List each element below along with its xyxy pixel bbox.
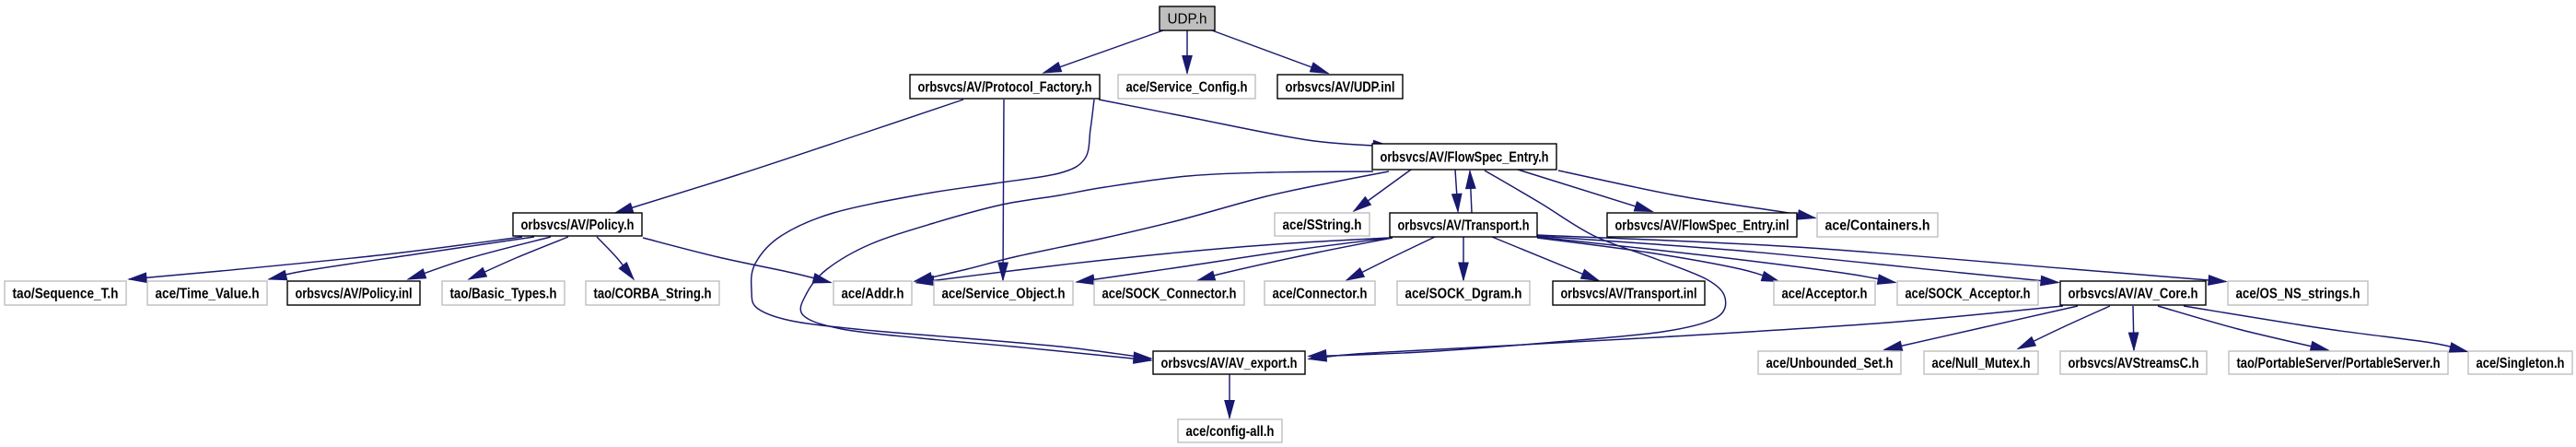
edge FlowSpec_Entry.h to AV_export.h (1309, 171, 1726, 359)
svg-text:ace/Null_Mutex.h: ace/Null_Mutex.h (1932, 356, 2031, 371)
svg-text:orbsvcs/AV/FlowSpec_Entry.h: orbsvcs/AV/FlowSpec_Entry.h (1381, 150, 1549, 166)
node ace/SOCK_Dgram.h (1397, 281, 1530, 305)
edge Transport.h to Service_Object.h (1077, 238, 1391, 284)
edge AV_Core.h to Unbounded_Set.h (1884, 306, 2078, 350)
svg-text:ace/config-all.h: ace/config-all.h (1186, 424, 1275, 440)
svg-text:ace/OS_NS_strings.h: ace/OS_NS_strings.h (2236, 287, 2360, 302)
svg-text:ace/Connector.h: ace/Connector.h (1273, 287, 1368, 302)
node orbsvcs/AV/AV_export.h (1153, 351, 1305, 374)
edge AV_Core.h to Singleton.h (2184, 306, 2467, 352)
svg-text:ace/Time_Value.h: ace/Time_Value.h (156, 287, 260, 302)
edge Transport.h to AV_Core.h (1537, 236, 2058, 286)
node ace/OS_NS_strings.h (2228, 281, 2368, 305)
svg-text:UDP.h: UDP.h (1168, 12, 1207, 28)
node ace/Singleton.h (2468, 351, 2572, 374)
edge UDP.h to UDP.inl (1212, 30, 1328, 74)
node tao/Basic_Types.h (442, 281, 565, 305)
node ace/config-all.h (1178, 419, 1282, 442)
edge Transport.h to OS_NS_strings.h (1537, 235, 2226, 285)
edge FlowSpec_Entry.h to FlowSpec_Entry.inl (1518, 170, 1652, 212)
edge Transport.h to Addr.h (916, 238, 1390, 286)
edge Policy.h to CORBA_String.h (597, 237, 634, 279)
node orbsvcs/AV/Transport.inl (1553, 281, 1705, 305)
node tao/PortableServer/PortableServer.h (2229, 351, 2448, 374)
edge Transport.h to Acceptor.h (1537, 238, 1779, 282)
node ace/Connector.h (1265, 281, 1375, 305)
svg-text:tao/Sequence_T.h: tao/Sequence_T.h (13, 287, 119, 302)
edge Transport.h to Transport.inl (1492, 237, 1599, 281)
edge Protocol_Factory.h to Service_Object.h (998, 100, 1008, 280)
edge AV_Core.h to Null_Mutex.h (2018, 306, 2110, 349)
node tao/CORBA_String.h (586, 281, 719, 305)
svg-text:ace/Unbounded_Set.h: ace/Unbounded_Set.h (1766, 356, 1894, 371)
edge Transport.h to SOCK_Connector.h (1197, 238, 1393, 281)
svg-text:orbsvcs/AV/Policy.h: orbsvcs/AV/Policy.h (521, 218, 635, 233)
node orbsvcs/AV/FlowSpec_Entry.inl (1607, 213, 1797, 237)
svg-text:orbsvcs/AV/Transport.inl: orbsvcs/AV/Transport.inl (1561, 287, 1697, 302)
node ace/Containers.h (1817, 213, 1938, 237)
edge FlowSpec_Entry.h to Containers.h (1558, 171, 1815, 219)
svg-text:orbsvcs/AV/Policy.inl: orbsvcs/AV/Policy.inl (296, 287, 413, 302)
node ace/Service_Object.h (934, 281, 1073, 305)
node ace/SOCK_Connector.h (1094, 281, 1244, 305)
svg-text:ace/Addr.h: ace/Addr.h (842, 287, 904, 302)
svg-text:orbsvcs/AV/UDP.inl: orbsvcs/AV/UDP.inl (1286, 80, 1395, 96)
node ace/Service_Config.h (1118, 75, 1255, 99)
edge AV_Core.h to PortableServer.h (2158, 306, 2328, 351)
node ace/Time_Value.h (147, 281, 267, 305)
node ace/Addr.h (833, 281, 912, 305)
edge FlowSpec_Entry.h to SString.h (1354, 170, 1411, 211)
edge UDP.h to Protocol_Factory.h (1043, 30, 1163, 73)
edge Policy.h to Time_Value.h (269, 237, 534, 280)
svg-text:orbsvcs/AV/AV_Core.h: orbsvcs/AV/AV_Core.h (2069, 287, 2198, 302)
edge Transport.h to Connector.h (1346, 237, 1435, 280)
node ace/SOCK_Acceptor.h (1897, 281, 2038, 305)
edge Policy.h to Policy.inl (408, 237, 551, 279)
edge Transport.h to SOCK_Acceptor.h (1537, 237, 1895, 284)
svg-text:tao/PortableServer/PortableSer: tao/PortableServer/PortableServer.h (2237, 356, 2441, 371)
node ace/Null_Mutex.h (1924, 351, 2038, 374)
node orbsvcs/AV/Policy.inl (287, 281, 420, 305)
node orbsvcs/AV/UDP.inl (1277, 75, 1403, 99)
edge FlowSpec_Entry.h to Transport.h (1452, 170, 1462, 212)
node orbsvcs/AV/Policy.h (513, 213, 642, 236)
svg-text:ace/SOCK_Dgram.h: ace/SOCK_Dgram.h (1405, 287, 1522, 302)
node orbsvcs/AVStreamsC.h (2060, 351, 2207, 374)
svg-text:orbsvcs/AV/FlowSpec_Entry.inl: orbsvcs/AV/FlowSpec_Entry.inl (1615, 218, 1789, 234)
edge Policy.h to Sequence_T.h (129, 237, 522, 283)
edge Protocol_Factory.h to AV_export.h (752, 100, 1151, 362)
svg-text:orbsvcs/AVStreamsC.h: orbsvcs/AVStreamsC.h (2069, 356, 2199, 371)
edge Policy.h to Addr.h (643, 238, 831, 283)
edge AV_Core.h to AV_export.h (1309, 306, 2063, 361)
node ace/SString.h (1275, 213, 1370, 236)
svg-text:ace/Service_Config.h: ace/Service_Config.h (1126, 80, 1248, 96)
node UDP.h (1160, 6, 1215, 30)
svg-text:ace/Service_Object.h: ace/Service_Object.h (942, 287, 1066, 302)
svg-text:ace/Singleton.h: ace/Singleton.h (2477, 356, 2565, 371)
node orbsvcs/AV/Transport.h (1390, 213, 1537, 237)
edge Transport.h to FlowSpec_Entry.h (1466, 171, 1475, 234)
node orbsvcs/AV/FlowSpec_Entry.h (1372, 144, 1556, 170)
edge Transport.h to SOCK_Dgram.h (1459, 237, 1469, 280)
svg-text:ace/SOCK_Acceptor.h: ace/SOCK_Acceptor.h (1906, 287, 2031, 302)
edge AV_export.h to config-all.h (1225, 374, 1235, 418)
edge Protocol_Factory.h to FlowSpec_Entry.h (1099, 100, 1391, 150)
edge Policy.h to Basic_Types.h (469, 237, 568, 279)
svg-text:ace/Containers.h: ace/Containers.h (1825, 218, 1930, 234)
node ace/Unbounded_Set.h (1758, 351, 1901, 374)
svg-text:tao/Basic_Types.h: tao/Basic_Types.h (450, 287, 557, 302)
edge AV_Core.h to AVStreamsC.h (2128, 306, 2138, 350)
svg-text:orbsvcs/AV/Transport.h: orbsvcs/AV/Transport.h (1398, 218, 1530, 234)
node orbsvcs/AV/Protocol_Factory.h (910, 75, 1100, 99)
edge Protocol_Factory.h to Policy.h (615, 100, 963, 213)
svg-text:ace/SString.h: ace/SString.h (1283, 218, 1362, 233)
svg-text:orbsvcs/AV/AV_export.h: orbsvcs/AV/AV_export.h (1161, 356, 1298, 371)
svg-text:ace/SOCK_Connector.h: ace/SOCK_Connector.h (1102, 287, 1237, 302)
edge UDP.h to Service_Config.h (1183, 30, 1193, 74)
edge Transport.h to AV_export.h (800, 171, 1373, 363)
svg-text:ace/Acceptor.h: ace/Acceptor.h (1782, 287, 1868, 302)
svg-text:tao/CORBA_String.h: tao/CORBA_String.h (594, 287, 712, 302)
edge FlowSpec_Entry.h to Addr.h (915, 171, 1389, 282)
svg-text:orbsvcs/AV/Protocol_Factory.h: orbsvcs/AV/Protocol_Factory.h (918, 80, 1092, 96)
node tao/Sequence_T.h (5, 281, 126, 305)
node ace/Acceptor.h (1774, 281, 1875, 305)
node orbsvcs/AV/AV_Core.h (2060, 281, 2206, 305)
